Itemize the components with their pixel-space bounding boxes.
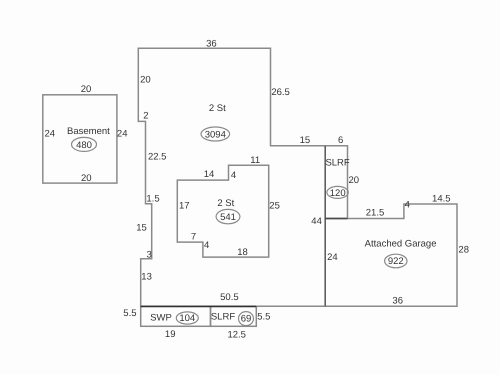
inner 2-story area ellipse	[216, 209, 240, 223]
svg-text:19: 19	[165, 329, 176, 340]
bottom SLRF box outline	[211, 306, 257, 326]
upper SLRF outline	[325, 146, 347, 219]
svg-text:13: 13	[141, 272, 152, 283]
SWP area ellipse	[176, 312, 198, 324]
svg-text:SLRF: SLRF	[211, 312, 235, 323]
svg-text:11: 11	[250, 155, 260, 166]
svg-text:20: 20	[140, 75, 151, 86]
svg-text:24: 24	[327, 252, 338, 263]
svg-text:4: 4	[405, 200, 410, 211]
svg-text:2: 2	[143, 111, 148, 122]
svg-text:922: 922	[388, 256, 404, 267]
svg-text:2 St: 2 St	[209, 103, 226, 114]
bottom SLRF area ellipse	[239, 312, 254, 326]
svg-text:22.5: 22.5	[148, 152, 167, 163]
svg-text:20: 20	[349, 175, 360, 186]
shared wall: house bottom / SWP+SLRF tops	[141, 305, 257, 307]
svg-text:15: 15	[300, 135, 311, 146]
svg-text:14.5: 14.5	[432, 194, 451, 205]
2-story house outline	[138, 48, 325, 306]
svg-text:50.5: 50.5	[220, 292, 239, 303]
svg-text:36: 36	[392, 296, 403, 307]
svg-text:480: 480	[76, 140, 92, 151]
svg-text:18: 18	[237, 247, 248, 258]
svg-text:24: 24	[45, 129, 56, 140]
svg-text:26.5: 26.5	[271, 87, 290, 98]
SWP box outline	[141, 306, 211, 326]
svg-text:3094: 3094	[205, 130, 226, 141]
svg-text:Attached Garage: Attached Garage	[365, 238, 437, 249]
svg-text:2 St: 2 St	[217, 198, 234, 209]
svg-text:Basement: Basement	[67, 126, 110, 137]
svg-text:4: 4	[204, 240, 209, 251]
svg-text:24: 24	[117, 129, 128, 140]
svg-text:69: 69	[241, 314, 252, 325]
upper SLRF area ellipse	[327, 186, 348, 198]
svg-text:SLRF: SLRF	[325, 158, 349, 169]
svg-text:17: 17	[179, 201, 190, 212]
garage area ellipse	[385, 254, 407, 268]
svg-text:7: 7	[191, 232, 196, 243]
shared wall: house right / SLRF left / garage left	[324, 146, 326, 306]
svg-text:5.5: 5.5	[123, 308, 136, 319]
svg-text:3: 3	[147, 249, 152, 260]
svg-text:12.5: 12.5	[227, 329, 246, 340]
svg-text:25: 25	[269, 201, 280, 212]
svg-text:20: 20	[81, 84, 92, 95]
svg-text:541: 541	[220, 212, 236, 223]
inner 2-story section outline	[177, 165, 268, 257]
attached garage outline	[325, 204, 457, 306]
svg-text:20: 20	[81, 173, 92, 184]
svg-text:104: 104	[179, 313, 195, 324]
svg-text:14: 14	[204, 169, 215, 180]
shared wall: SLRF bottom / garage top	[325, 218, 347, 220]
svg-text:15: 15	[136, 223, 147, 234]
basement outline	[43, 95, 117, 183]
svg-text:36: 36	[206, 38, 217, 49]
svg-text:120: 120	[330, 188, 346, 199]
svg-text:SWP: SWP	[150, 313, 172, 324]
svg-text:21.5: 21.5	[366, 208, 385, 219]
svg-text:1.5: 1.5	[146, 194, 159, 205]
basement area ellipse	[72, 137, 97, 151]
2-story house area ellipse	[201, 127, 230, 141]
svg-text:5.5: 5.5	[257, 311, 270, 322]
svg-text:6: 6	[338, 135, 343, 146]
svg-text:44: 44	[311, 216, 322, 227]
svg-text:28: 28	[458, 245, 469, 256]
svg-text:4: 4	[231, 170, 236, 181]
